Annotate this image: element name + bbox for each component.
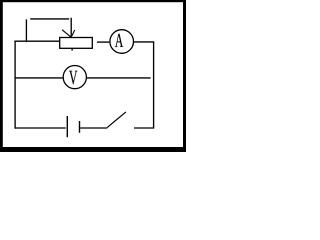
tick below resistor [71, 49, 73, 51]
border frame right [183, 0, 186, 152]
switch S lever [107, 112, 126, 128]
arrow barb left [62, 30, 71, 37]
wire resistor to ammeter [97, 41, 109, 43]
ammeter label A [115, 34, 123, 47]
voltmeter label V [69, 71, 77, 85]
battery long plate [66, 116, 68, 137]
wire left vertical [14, 41, 16, 129]
battery short plate [79, 121, 81, 133]
border frame top [0, 0, 186, 2]
wire battery to switch [80, 127, 107, 129]
resistor R body [60, 38, 93, 49]
border frame bottom [0, 147, 186, 152]
wire slider top horizontal [30, 18, 69, 20]
voltmeter V1 circle [63, 66, 86, 89]
switch right contact wire [134, 127, 154, 129]
wire top horizontal to rheostat [14, 40, 59, 42]
ammeter A1 circle [110, 30, 134, 54]
wire voltmeter branch left [15, 77, 63, 79]
border frame left [0, 0, 3, 152]
wire slider drop vertical [70, 18, 72, 38]
arrow barb right [72, 30, 75, 36]
wire right vertical [153, 42, 155, 128]
wire ammeter to right corner [134, 41, 154, 43]
wire voltmeter branch right [87, 77, 151, 79]
wire bottom to battery [15, 127, 66, 129]
wire slider feed vertical [25, 19, 27, 42]
